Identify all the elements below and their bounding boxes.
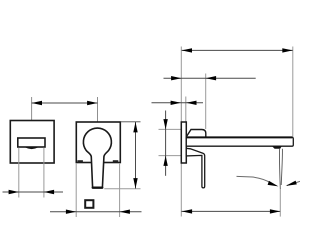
aerator crescent under slot bbox=[25, 147, 39, 149]
handle keyhole lever (front view) bbox=[83, 128, 111, 188]
wire: extension line lever top (side left) bbox=[159, 155, 182, 157]
wire: extension line slot left bbox=[18, 148, 20, 198]
wire: extension line handle top bbox=[121, 121, 141, 123]
stream pointer arrowhead left bbox=[268, 181, 279, 187]
wire: extension line lever bottom bbox=[104, 188, 140, 190]
dimension: spout reach from wall (side top) bbox=[182, 48, 293, 52]
dimension: centre distance between plates (front top) bbox=[32, 101, 98, 105]
handle escutcheon plate (front view) bbox=[76, 122, 120, 163]
dimension: plate thickness (side third) bbox=[152, 101, 204, 105]
dimension: body height (side left) bbox=[163, 111, 167, 176]
aerator nib under spout end (side view) bbox=[272, 146, 281, 148]
spout outlet slot bbox=[18, 138, 45, 147]
wire: extension line body top (side left) bbox=[159, 128, 182, 130]
water stream line left bbox=[278, 149, 281, 189]
wire: extension line slot right bbox=[43, 148, 45, 198]
dimension: body depth from wall (side second) bbox=[164, 76, 256, 80]
dimension: spout projection (side bottom) bbox=[181, 209, 280, 213]
spout (side view) bbox=[186, 137, 293, 146]
dimension: handle overall height (front right) bbox=[133, 122, 137, 189]
dimension: slot width (front lower left) bbox=[3, 190, 64, 194]
water stream line right bbox=[281, 149, 282, 185]
stream pointer curved leader (left) bbox=[237, 176, 272, 183]
stream pointer leader (right) bbox=[287, 181, 300, 185]
wire: centerline of spout plate bbox=[31, 97, 33, 138]
stream pointer arrowhead right bbox=[286, 181, 297, 186]
spout top edge thick bbox=[186, 136, 292, 138]
wall box symbol below handle plate bbox=[85, 200, 93, 208]
wire: extension line wall plane (side view) bbox=[180, 47, 182, 217]
wire: extension line spout end bbox=[292, 47, 294, 138]
dimension: plate width (front bottom) bbox=[50, 210, 142, 214]
plate fixing mark left bbox=[77, 160, 83, 162]
plate fixing mark right bbox=[113, 160, 119, 162]
mixer body housing (side view) bbox=[186, 130, 205, 138]
wire: centerline of handle plate bbox=[97, 97, 99, 128]
lever stem bottom cap bbox=[93, 186, 102, 188]
wire: extension line plate right edge bbox=[119, 163, 121, 217]
wire: extension line body front bbox=[205, 74, 207, 130]
wire: extension line plate front face bbox=[185, 97, 187, 123]
wire: extension line plate left edge bbox=[75, 163, 77, 217]
wire: extension line stream bbox=[279, 189, 281, 217]
spout escutcheon plate (front view) bbox=[10, 121, 54, 164]
lever (side view) bbox=[186, 148, 204, 188]
wall plate (side view) bbox=[181, 122, 186, 163]
